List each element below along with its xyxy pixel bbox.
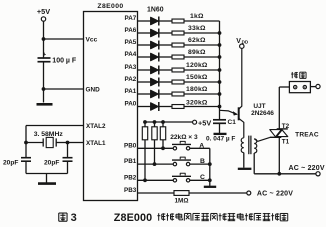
svg-text:89kΩ: 89kΩ xyxy=(188,49,206,56)
svg-text:0. 047 µ F: 0. 047 µ F xyxy=(206,136,235,143)
svg-text:B: B xyxy=(200,158,205,165)
svg-text:C1: C1 xyxy=(228,119,237,126)
svg-text:PB0: PB0 xyxy=(124,142,137,149)
svg-text:TREAC: TREAC xyxy=(295,132,319,139)
svg-text:PA7: PA7 xyxy=(125,15,137,22)
svg-text:A: A xyxy=(199,143,204,150)
svg-text:+: + xyxy=(43,52,46,58)
svg-text:3: 3 xyxy=(71,212,77,224)
svg-text:+5V: +5V xyxy=(37,7,50,16)
svg-text:C: C xyxy=(200,174,205,181)
svg-text:20pF: 20pF xyxy=(44,159,59,166)
svg-text:Z8E000: Z8E000 xyxy=(97,3,123,10)
svg-text:120kΩ: 120kΩ xyxy=(186,62,208,69)
svg-text:PA6: PA6 xyxy=(125,27,137,34)
svg-text:PB3: PB3 xyxy=(124,187,137,194)
svg-text:PB1: PB1 xyxy=(124,158,137,165)
svg-text:PA3: PA3 xyxy=(125,64,137,71)
svg-text:PA4: PA4 xyxy=(125,51,137,58)
svg-text:1kΩ: 1kΩ xyxy=(190,13,204,20)
svg-text:UJT: UJT xyxy=(253,103,265,110)
svg-text:PB2: PB2 xyxy=(124,174,137,181)
svg-text:V: V xyxy=(236,38,241,45)
svg-text:22kΩ × 3: 22kΩ × 3 xyxy=(170,134,198,141)
svg-text:3. 58MHz: 3. 58MHz xyxy=(34,131,64,138)
svg-text:T2: T2 xyxy=(282,123,290,130)
svg-text:100 µ F: 100 µ F xyxy=(52,58,77,65)
svg-text:T1: T1 xyxy=(282,139,290,146)
svg-text:PA1: PA1 xyxy=(125,88,137,95)
svg-text:AC ~ 220V: AC ~ 220V xyxy=(289,165,325,172)
svg-text:PA2: PA2 xyxy=(125,76,137,83)
svg-text:AC ~ 220V: AC ~ 220V xyxy=(257,191,293,198)
svg-text:XTAL2: XTAL2 xyxy=(86,123,106,130)
svg-text:1MΩ: 1MΩ xyxy=(174,197,188,204)
svg-text:20pF: 20pF xyxy=(3,159,18,166)
svg-text:GND: GND xyxy=(86,86,101,93)
svg-text:Vcc: Vcc xyxy=(86,36,98,43)
svg-text:XTAL1: XTAL1 xyxy=(86,140,106,147)
svg-text:DD: DD xyxy=(242,40,249,45)
svg-text:62kΩ: 62kΩ xyxy=(188,37,206,44)
svg-text:Z8E000: Z8E000 xyxy=(114,212,152,224)
svg-text:PA0: PA0 xyxy=(125,101,137,108)
svg-text:320kΩ: 320kΩ xyxy=(186,100,208,107)
svg-text:PA5: PA5 xyxy=(125,39,137,46)
svg-text:2N2646: 2N2646 xyxy=(251,110,274,117)
svg-text:+5V: +5V xyxy=(198,119,211,128)
svg-text:33kΩ: 33kΩ xyxy=(188,25,206,32)
svg-text:180kΩ: 180kΩ xyxy=(186,86,208,93)
svg-text:1N60: 1N60 xyxy=(147,7,164,14)
svg-text:150kΩ: 150kΩ xyxy=(186,74,208,81)
